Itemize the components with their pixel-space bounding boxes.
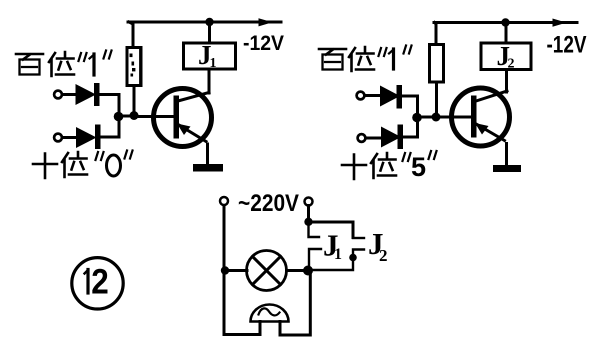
svg-text:5: 5 [411,152,426,182]
svg-text:-12V: -12V [243,32,284,55]
diode D2 [62,120,119,149]
Q1 emitter stroke [177,124,207,142]
wire node C to node D [417,116,436,119]
wire: left terminal down to bottom corner [223,206,226,335]
Q2 emitter stroke [475,123,505,141]
node C junction dot [412,113,422,123]
figure number circle 12 [72,258,123,309]
wire: rail corner down to resistor R2 top [435,23,437,46]
close quote [104,51,112,59]
junction dot on J2 lower lead [349,254,357,262]
Q2 collector stroke [476,91,507,101]
close quote [125,151,133,159]
input terminal (right, bottom) [358,134,366,142]
hanzi BAI [16,54,43,60]
contact J1 (upper lead) [309,222,320,237]
digit 0 [107,155,121,176]
wire: top supply rail (left circuit) [128,21,281,24]
junction dot lamp-right [303,266,313,276]
Q1 ring [154,89,212,147]
bell (dome with wave) [251,305,289,322]
Q2 emitter arrow (PNP) [475,123,489,135]
wire: to J2 contact branch [309,222,354,238]
wire: right terminal down [307,206,310,223]
label 十位"5" (right) [342,151,437,182]
svg-text:2: 2 [379,246,388,265]
junction dot on rail above J2 [501,18,509,26]
svg-text:~220V: ~220V [238,190,300,217]
svg-text:1: 1 [210,56,217,71]
junction dot on rail above J1 [205,18,213,26]
contact J2 (upper lead) [353,237,364,239]
wire: bottom right segment and riser [280,271,310,336]
ground (right) [493,165,521,172]
wire: Q2 emitter to ground [505,144,508,166]
input terminal (left, bottom) [54,134,62,142]
wire: rail to relay J2 box top [505,23,508,44]
label 百位"1" (right) [319,46,412,72]
wire: lamp right lead [287,269,309,272]
diode D1 [62,83,119,113]
svg-text:1: 1 [334,246,342,263]
terminal ~220V left [220,197,228,205]
label 十位"0" (left) [33,151,133,179]
wire: node B to transistor base [134,115,174,118]
svg-text:2: 2 [91,263,109,302]
wire: rail corner down to resistor R1 top [129,22,133,48]
hanzi WEI [62,152,87,177]
input terminal (left, top) [54,91,62,99]
wire: Q1 emitter to ground [206,144,209,164]
wire: bottom left segment [224,333,260,336]
node A junction dot (diodes join) [114,112,124,122]
resistor R1 ink specks [130,54,136,77]
diode D4 [366,121,418,149]
ground (left) [193,164,223,172]
open quote [79,53,87,61]
Q1 base bar [174,96,180,139]
transistor Q2 [452,88,510,146]
wire node A to node B [119,115,135,118]
node D junction dot [432,113,441,122]
arrowhead on right top rail [553,19,567,27]
open quote [96,152,104,160]
wire: relay J2 to Q2 collector [505,70,508,93]
lamp HL (circle with X) [247,251,287,291]
transistor Q1 [154,89,212,147]
relay coil J1 box [184,43,236,69]
wire: resistor R2 bottom to node [435,82,438,117]
contact J2 (lower lead) [308,250,364,271]
wire: relay J1 to Q1 collector [208,69,211,93]
relay coil J2 box [481,43,531,70]
Q2 ring [452,88,510,146]
resistor R1 [127,48,141,86]
input terminal (right, top) [357,92,365,100]
wire: top supply rail (right circuit) [434,21,577,24]
bell pedestal legs [260,322,280,336]
wire: resistor R1 bottom to node B [133,86,136,117]
arrowhead on left top rail [259,18,273,26]
resistor R2 [430,45,444,83]
label 百位"1" (left) [16,51,112,77]
node B junction dot (resistor join) [130,111,139,120]
diode D3 [365,85,418,114]
wire: node D to transistor base [436,116,472,119]
svg-text:-12V: -12V [547,31,587,58]
hanzi WEI [49,52,74,76]
digit 1 [92,54,95,75]
junction dot below right terminal [304,218,312,226]
wire: lamp left lead [225,269,247,272]
Q1 emitter arrow (PNP) [177,124,191,136]
contact J1 (lower lead) [309,249,321,270]
junction dot lamp-left [221,266,229,274]
Q2 base bar [471,96,477,138]
svg-text:2: 2 [508,57,515,72]
wire: rail to relay J1 box top [208,22,211,43]
terminal ~220V right [305,198,313,206]
Q1 collector stroke [178,93,209,102]
